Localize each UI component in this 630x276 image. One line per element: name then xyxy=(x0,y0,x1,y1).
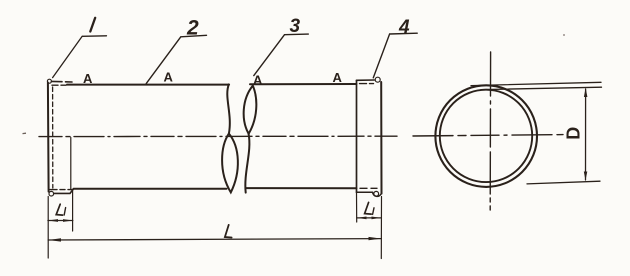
dimension L arrows xyxy=(48,237,381,242)
wire witness line right (below end face) xyxy=(380,197,382,259)
wire vertical centerline of end view xyxy=(489,52,491,210)
dimension D second extension line (inner tangent) xyxy=(481,87,602,89)
wire right break S-curve lower segment xyxy=(245,134,249,193)
svg-text:A: A xyxy=(253,73,263,88)
dimension D top extension line (outer tangent) xyxy=(471,82,601,85)
node corner circle top-left xyxy=(47,79,51,83)
ring 4 right end face xyxy=(380,82,382,194)
wire pipe top edge left segment xyxy=(67,84,229,86)
svg-text:A: A xyxy=(164,70,174,85)
label L overall xyxy=(225,225,232,238)
ring 4 top edge xyxy=(357,79,375,81)
leader for label 3 xyxy=(254,34,308,76)
wire hidden pipe bottom edge inside right ring (dashed) xyxy=(360,187,377,189)
node corner circle bottom-right xyxy=(374,191,379,196)
wire hidden pipe top edge inside left ring (dashed) xyxy=(52,84,67,86)
ring 4 left boundary xyxy=(356,80,358,192)
dimension D bottom extension line xyxy=(527,181,600,184)
circle outer of end view xyxy=(435,85,537,187)
leader for label 1 xyxy=(53,36,107,78)
dimension L overall line xyxy=(48,239,381,240)
svg-text:D: D xyxy=(564,127,584,140)
ring 1 left end face xyxy=(47,83,50,192)
wire witness line at L1 left inner xyxy=(71,138,73,232)
wire left break lens (lower) xyxy=(222,134,238,193)
label L1 right xyxy=(365,202,374,214)
ring 1 bottom edge xyxy=(54,189,74,194)
svg-text:4: 4 xyxy=(398,17,410,38)
wire pipe bottom edge right segment xyxy=(246,187,357,189)
wire left break S-curve upper segment xyxy=(227,84,230,133)
wire right break lens (upper) xyxy=(244,86,257,134)
node stray mark left margin xyxy=(23,132,27,134)
dimension L1 right arrows xyxy=(357,217,381,220)
node corner circle top-right xyxy=(375,77,380,82)
wire pipe top edge right segment xyxy=(250,83,356,85)
label L1 left xyxy=(56,204,65,215)
node stray dot artifact xyxy=(563,34,565,36)
dimension D arrows xyxy=(584,88,588,181)
ring 1 hidden inner vertical (dashed) xyxy=(52,87,54,188)
svg-text:2: 2 xyxy=(186,17,199,40)
wire centerline of side view (dash-dot) xyxy=(39,135,397,137)
wire centerline through end view (dash-dot) xyxy=(413,135,563,136)
wire hidden pipe bottom edge inside left ring (dashed) xyxy=(50,189,73,191)
label 1 (drawn stroke digit) xyxy=(90,18,95,32)
wire witness line left (below end face) xyxy=(47,197,49,259)
ring 4 bottom edge xyxy=(357,192,381,196)
circle inner of end view xyxy=(440,90,532,182)
dimension D vertical line xyxy=(585,89,587,180)
svg-text:A: A xyxy=(333,70,343,85)
node corner circle bottom-left xyxy=(49,191,54,196)
leader for label 4 xyxy=(373,33,417,78)
leader for label 2 xyxy=(146,35,206,83)
svg-text:A: A xyxy=(83,71,93,86)
dimension L1 left line xyxy=(48,220,73,222)
wire witness line right ring left (below) xyxy=(356,192,358,222)
dimension L1 right line xyxy=(357,217,381,219)
ring 1 top edge xyxy=(52,80,73,83)
wire hidden pipe top edge inside right ring (dashed) xyxy=(360,83,377,85)
svg-text:3: 3 xyxy=(290,16,301,37)
wire pipe bottom edge left segment xyxy=(74,188,227,190)
dimension L1 left arrows xyxy=(48,219,73,222)
